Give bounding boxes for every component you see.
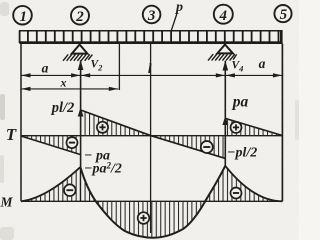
minus sign circle T 3-4 [201,141,213,153]
M moment region mid-span hatched [97,201,205,237]
scan smudge left edge lower [0,155,4,183]
beam with distributed load strip [19,30,283,44]
node circle 2 [71,7,89,26]
M curve main span [80,166,225,238]
T shear region 1-2 hatched [21,136,81,155]
T shear region 2-3 hatched [81,110,151,136]
M curve overhang 1-2 [21,167,80,201]
shear line 4-5 [225,118,282,135]
pa jump arrowhead [222,116,228,125]
leader line from p to beam [171,14,177,31]
section tick x [118,44,120,90]
node circle 3 [143,6,161,24]
minus sign circle T 1-2 [67,137,78,148]
right reference line (node 5) [281,44,283,202]
shear line 2-4 [81,110,226,158]
T shear region 4-5 hatched [225,118,282,135]
V4 arrowhead [223,61,229,71]
left reference line (node 1) [20,44,22,202]
plus sign circle T 4-5 [231,122,242,133]
M moment region 4-5 hatched [204,166,280,202]
M axis [21,200,282,202]
dimension line x [21,88,118,90]
T shear region 3-4 hatched [151,136,225,159]
dim arrowheads [21,73,30,77]
scan smudge top-left corner [0,2,9,16]
plus sign circle T 2-3 [97,122,108,133]
reaction line V2 / shear jump at support 2 [80,60,82,167]
scan smudge right edge [295,100,299,140]
V2 arrowhead [78,60,84,70]
plus sign circle M mid [138,212,150,224]
reference line node 3 [150,44,152,233]
dimension line a-l-a [21,74,282,76]
pl/2 jump arrowhead [78,107,84,116]
minus sign circle M 4-5 [231,188,242,199]
shear line 1-2 [21,136,81,155]
scan smudge left edge upper [0,94,5,120]
M ordinate at support 2 [79,167,81,201]
T axis [21,135,282,137]
M curve overhang 4-5 [225,166,282,202]
minus sign circle M 1-2 [64,184,76,196]
reaction line V4 / shear jump at support 4 [224,61,226,166]
M moment region 1-2 hatched [21,167,97,201]
scan smudge bottom-left corner [0,227,14,240]
node circle 5 [274,5,291,23]
support 4 (pin) [208,45,237,61]
node circle 4 [214,5,233,24]
node circle 1 [13,6,32,25]
support 2 (pin) [63,45,92,61]
